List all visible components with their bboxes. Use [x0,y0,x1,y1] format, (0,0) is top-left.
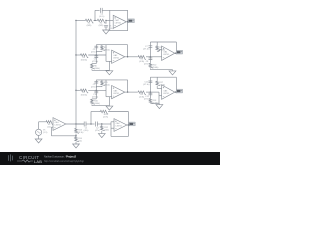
node between resistors [94,20,95,21]
wire C2 to op-amp OA2 [97,123,111,125]
capacitor C3 to ground [105,20,107,23]
wire bus to R3 [76,54,80,56]
resistor R13 feedback [75,128,79,134]
wire R8 jog to inverting input [156,86,158,89]
wire OA2 output [127,124,129,126]
resistor R9 [137,91,146,95]
node OA1 output junction [75,123,76,124]
node between C1 C2 [90,123,91,124]
wire R7 to op-amp [88,89,106,91]
ground right stage [169,71,176,75]
wire V1 bottom to ground [38,135,40,139]
wire R11 to output loop [108,111,128,113]
resistor R2a [97,19,106,23]
resistor R15 [101,81,105,86]
node caps junction [96,90,97,91]
wire OA2 input stubs [111,121,114,123]
capacitor C7 [149,42,151,57]
wire OA3 output [125,56,137,58]
capacitor C12 [149,92,151,98]
wire R2a to op-amp [106,19,114,21]
op-amp OA5 [112,86,125,99]
op-amp OA2 [114,119,127,132]
wire to ground [91,105,93,106]
wire R5 to op-amp 2 [146,56,162,58]
resistor R12 to ground [101,124,103,125]
resistor R16 [92,98,96,100]
capacitor C10 [95,90,97,99]
op-amp stub ground wire [106,60,112,62]
resistor R10 [149,63,153,69]
resistor R11 feedback [100,110,109,114]
footer logo LAB [17,160,33,162]
node label flag output [176,89,182,93]
wire feedback tap up row1 [94,10,96,20]
wire C3 to ground [105,27,107,30]
op-amp OA7 feedback box [110,10,128,30]
wire R14 to ground [75,142,77,144]
wire to ground [91,69,93,70]
op-amp OA3 [112,50,125,63]
resistor R18 [149,98,153,104]
wire box right edge [127,45,129,58]
node caps junction 2 [150,56,151,57]
wire OA6 output [175,91,177,93]
resistor R3 [80,54,89,58]
ground below R14 [73,144,80,148]
voltage source V1 [36,129,42,135]
ground below op-amp [106,106,113,110]
wire bus to R7 [76,89,80,91]
wire feedback tap up [90,112,92,125]
wire box left edge [105,45,107,62]
node after C2 [101,123,102,124]
resistor R1 [85,19,94,23]
wire box right edge [127,80,129,93]
svg-text:LAB: LAB [34,159,42,164]
wire C4 to box [102,9,110,11]
svg-text:NathanGustavson / Project2: NathanGustavson / Project2 [44,155,77,158]
op-amp OA7 [113,15,126,28]
resistor R8 [156,45,160,50]
resistor R4 [101,45,105,50]
wire chain to ground 2 [150,103,159,105]
wire OA4 output [175,52,177,54]
wire divider top [75,124,77,128]
wire OA7 output [126,21,128,23]
node input bus tap [75,90,76,91]
capacitor C9 [95,80,97,90]
wire feedback top [96,44,127,46]
capacitor C1 [76,123,84,125]
wire R12 to ground [101,131,103,134]
capacitor C8 [149,57,151,63]
wire feedback top 2 [150,76,176,78]
wire R3 to op-amp [88,54,106,56]
wire feedback down 2 [175,42,177,53]
op-amp stub ground wire [106,96,112,98]
wire feedback down 2 [175,77,177,92]
op-amp OA1 [53,118,66,131]
ground below R12 [98,134,105,138]
ground below C3 [103,30,110,34]
node label flag hp out [129,122,135,126]
wire V1 top to R2 [38,122,40,129]
resistor R6 [92,63,96,65]
ground right stage [156,105,163,109]
wire OA5 output [125,91,137,93]
footer logo icon [9,154,13,161]
ground below V1 [35,139,42,143]
wire box left edge [105,80,107,97]
op-amp OA4 [162,46,175,60]
wire non-inverting stub [159,95,162,97]
wire OA1 output [66,123,84,125]
op-amp OA6 [162,85,175,99]
node after R2a [105,20,106,21]
capacitor C5 [95,45,97,55]
footer bar [0,152,220,165]
resistor R14 to ground [75,136,79,142]
resistor R17 [156,81,160,86]
wire input jog down [158,92,160,103]
capacitor C4 feedback [100,8,102,13]
op-amp OA2 feedback box [127,112,129,137]
wire bus to R1 [76,19,85,21]
node input bus tap [75,54,76,55]
capacitor C6 [95,55,97,64]
resistor R5 [137,56,146,60]
capacitor C2 [96,122,98,127]
node input bus tap row1 [75,20,76,21]
node label flag row1 output [128,19,134,23]
wire feedback top [96,79,127,81]
wire R1 to R2a [94,19,97,21]
node caps junction [96,54,97,55]
wire C1 to C2 [86,123,95,125]
wire R9 to op-amp 2 [146,91,159,93]
ground below op-amp [106,71,113,75]
node divider junction [75,134,77,137]
node label flag output [176,50,182,54]
svg-text:http://circuitlab.com/c/2map7q: http://circuitlab.com/c/2map7qAykXqp [44,160,85,163]
resistor R2 input [45,121,53,125]
wire feedback OA1 inverting input [51,126,53,128]
wire R8 jog to inverting input [156,50,158,53]
capacitor C11 [149,77,151,92]
wire feedback top 2 [150,41,176,43]
resistor R7 [80,89,89,93]
wire chain to ground 2 [149,68,151,69]
wire input bus vertical [75,20,77,124]
node caps junction 2 [150,91,151,92]
